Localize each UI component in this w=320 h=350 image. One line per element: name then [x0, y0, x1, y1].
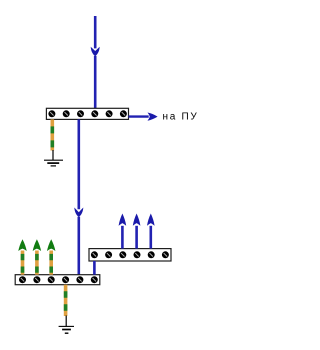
arrowhead: outgoing circuit 1 (blue, up): [119, 214, 127, 226]
wire: outgoing PE conductor 2 (yellow-green, up from XT2:2): [35, 251, 39, 275]
wire: outgoing circuit 3 (up from XT3:5): [150, 226, 153, 249]
terminal XT3:2: [105, 251, 112, 258]
terminal XT1:5: [106, 110, 113, 117]
terminal XT3:3: [119, 251, 126, 258]
wire: outgoing circuit 1 (up from XT3:3): [121, 226, 124, 249]
wire: jumper XT3:1 to XT2:6 (vertical): [93, 261, 96, 275]
terminal XT2:6: [91, 276, 98, 283]
arrowhead: to control panel (right): [148, 113, 158, 121]
terminal XT1:1: [48, 110, 55, 117]
arrowhead: outgoing circuit 3 (blue, up): [147, 214, 155, 226]
wire: outgoing PE conductor 3 (yellow-green, up from XT2:3): [49, 251, 53, 275]
busbar XT3 (bottom right): [89, 249, 171, 261]
terminal XT3:6: [162, 251, 169, 258]
arrowhead: PE outgoing 3 (green, up): [47, 239, 55, 251]
arrowhead: power flow down on incoming feeder: [91, 47, 100, 56]
terminal XT3:4: [134, 251, 141, 258]
terminal XT1:2: [63, 110, 70, 117]
wire: branch to control panel (horizontal, right): [129, 115, 149, 117]
ground symbol (top earth): [44, 160, 63, 166]
terminal XT3:5: [148, 251, 155, 258]
arrowhead: power flow down on riser: [74, 208, 83, 218]
wire: main riser from XT1:3 down to XT2 (vertical): [78, 119, 81, 209]
terminal XT3:1: [91, 251, 98, 258]
svg-text:на ПУ: на ПУ: [163, 112, 199, 123]
terminal XT1:4: [91, 110, 98, 117]
arrowhead: PE outgoing 2 (green, up): [33, 239, 41, 251]
wire: outgoing PE conductor 1 (yellow-green, up from XT2:1): [21, 251, 25, 275]
terminal XT2:2: [33, 276, 40, 283]
wire: PE conductor from XT1:1 down to earth (yellow-green): [50, 119, 54, 150]
terminal XT2:5: [76, 276, 83, 283]
wire: incoming supply feeder (below arrowhead): [94, 56, 97, 109]
terminal XT2:1: [19, 276, 26, 283]
terminal XT1:6: [120, 110, 127, 117]
terminal XT2:3: [48, 276, 55, 283]
arrowhead: outgoing circuit 2 (blue, up): [133, 214, 141, 226]
ground electrode lead (top earth): [52, 150, 54, 160]
wire: PE conductor from XT2:4 down to earth (yellow-green): [64, 285, 68, 316]
ground symbol (bottom earth): [59, 326, 74, 333]
terminal XT2:4: [62, 276, 69, 283]
wire: outgoing circuit 2 (up from XT3:4): [135, 226, 138, 249]
busbar XT1 (main earthing busbar, top): [46, 108, 128, 119]
wire: incoming supply feeder (vertical, top): [94, 16, 97, 48]
terminal XT1:3: [77, 110, 84, 117]
busbar XT2 (floor earthing busbar, bottom left): [15, 275, 100, 285]
ground electrode lead (bottom earth): [65, 316, 67, 327]
wire: main riser (below arrowhead): [78, 217, 81, 275]
arrowhead: PE outgoing 1 (green, up): [18, 239, 26, 251]
